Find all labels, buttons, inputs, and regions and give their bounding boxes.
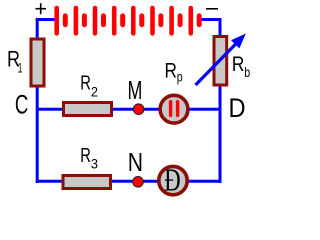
resistor R2 [64, 103, 112, 116]
label R1 [7, 48, 22, 76]
- terminal label [206, 8, 218, 10]
svg-text:1: 1 [18, 62, 23, 76]
svg-text:3: 3 [91, 156, 98, 171]
svg-text:p: p [177, 69, 183, 85]
svg-text:Đ: Đ [164, 163, 180, 197]
label Rb [232, 54, 250, 81]
battery B (8 cells, red plates) [57, 8, 200, 33]
label Rp [165, 60, 183, 85]
wire: middle branch horizontal (C to D) [36, 108, 220, 111]
label R3 [80, 144, 98, 172]
svg-text:2: 2 [91, 84, 98, 99]
lamp D (circle) [159, 166, 187, 194]
label R2 [80, 71, 98, 99]
svg-text:b: b [244, 65, 250, 81]
svg-text:C: C [15, 89, 28, 119]
svg-text:R: R [232, 54, 244, 77]
wire: left vertical upper (corner down to R1 top) [36, 18, 39, 40]
wire: battery - terminal to top-right corner [201, 18, 222, 21]
wire: right vertical (top corner through Rb and node D to bottom-right corner) [219, 18, 222, 183]
device Rp (circle with two red plates) [160, 95, 188, 123]
node M dot [133, 104, 144, 115]
wire: left vertical lower (R1 bottom through node C to bottom-left corner) [36, 85, 39, 183]
node N dot [133, 177, 144, 188]
resistor R1 [31, 39, 44, 86]
svg-text:D: D [229, 94, 246, 124]
+ terminal label [36, 3, 47, 14]
svg-text:N: N [128, 148, 143, 176]
resistor R3 [63, 176, 111, 189]
wire: bottom branch horizontal [36, 180, 221, 183]
svg-text:R: R [80, 71, 91, 94]
rheostat Rb arrow [196, 34, 246, 86]
rheostat Rb body [214, 37, 227, 86]
wire: top-left horizontal from left column to battery + terminal [36, 18, 56, 21]
svg-text:R: R [80, 144, 91, 167]
svg-text:M: M [128, 76, 143, 105]
svg-text:R: R [165, 60, 177, 83]
